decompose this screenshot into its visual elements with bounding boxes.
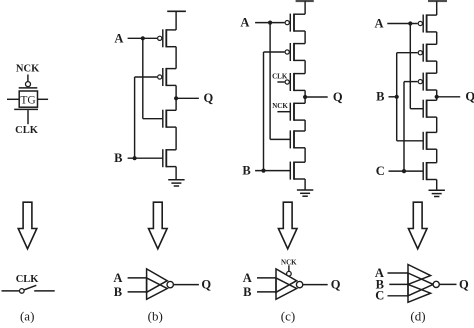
node Q junction (c) [303, 95, 307, 99]
label NCK (TG gate) [16, 63, 40, 74]
VDD rail (c) [296, 0, 314, 2]
nmos M4 (d) gate A [423, 100, 437, 118]
inversion bubble on TG [26, 82, 31, 87]
svg-text:B: B [376, 90, 384, 104]
svg-text:A: A [113, 271, 122, 285]
gate (b) inverter triangle 2 [147, 278, 168, 299]
gate (d) inverter triangle 1 [408, 265, 431, 285]
svg-text:Q: Q [465, 90, 474, 104]
wire M3-Q-M4 (c) [304, 90, 306, 103]
label CLK (c M3) [272, 73, 288, 81]
wire A to M1 gate (b) [128, 37, 157, 39]
gate (d) inverter triangle 3 [408, 284, 431, 302]
gate (b) output bubble [167, 281, 173, 287]
svg-text:C: C [376, 164, 385, 178]
wire M2-Q-M3 (b) [175, 85, 177, 110]
bus B up (c) [263, 52, 265, 171]
wire B into gate (b) [128, 291, 147, 293]
wire B into gate (c) [257, 291, 276, 293]
label NCK (c gate) [281, 258, 297, 266]
label CLK (switch) [16, 274, 40, 285]
nmos M5 (d) gate B [423, 132, 437, 150]
bus A down (b) [142, 38, 144, 118]
wire C into gate (d) [388, 295, 409, 297]
wire B to bus (d) [389, 96, 397, 98]
svg-text:NCK: NCK [16, 63, 40, 74]
wire M1-M2 (c) [304, 31, 306, 44]
wire M4-M5 (d) [436, 117, 438, 132]
label Q (b top) [204, 91, 214, 105]
switch symbol [2, 285, 55, 293]
wire B to M2 gate (d) [397, 52, 418, 54]
arrow (c) [278, 202, 297, 249]
label B (c bottom) [243, 285, 251, 299]
wire rail to M1 (c) [304, 1, 306, 14]
wire B to M4 gate (b) [128, 157, 163, 159]
svg-text:Q: Q [201, 278, 211, 292]
wire M3-M4 (b) [175, 127, 177, 150]
label B (c top) [242, 164, 250, 178]
svg-text:Q: Q [333, 90, 343, 104]
svg-text:B: B [114, 285, 122, 299]
ground (c) [297, 190, 313, 196]
svg-text:B: B [243, 285, 251, 299]
TG right terminal wire [38, 98, 49, 100]
label C (d bottom) [375, 289, 384, 303]
bus A down (d) [409, 24, 411, 109]
VDD rail (d) [428, 0, 447, 2]
label A (b bottom) [113, 271, 122, 285]
wire to Q (d) [437, 96, 461, 98]
TG bottom gate bar [14, 108, 38, 110]
svg-text:B: B [242, 164, 250, 178]
wire C to M6 gate (d) [389, 170, 424, 172]
svg-text:CLK: CLK [272, 73, 288, 81]
node Q junction (d) [435, 95, 439, 99]
label B (d top) [376, 90, 384, 104]
label A (c bottom) [243, 271, 252, 285]
label A (d bottom) [375, 266, 384, 280]
pmos M1 (b) gate A [158, 29, 177, 47]
transmission gate TG box [19, 91, 37, 107]
junction C (d) [402, 169, 406, 173]
nmos M6 (d) gate C [423, 162, 437, 180]
wire NCK to bubble (c gate) [288, 265, 290, 271]
wire A to M1 gate (d) [387, 23, 417, 25]
pmos M3 (c) gate CLK [285, 73, 305, 91]
wire B to M2 gate (b) [135, 76, 157, 78]
svg-text:NCK: NCK [272, 102, 288, 110]
gate (d) inverter triangle 2 [408, 273, 433, 296]
caption (c) [281, 309, 295, 324]
arrow (b) [149, 202, 168, 249]
wire rail to M1 (d) [436, 1, 438, 15]
svg-text:Q: Q [459, 277, 469, 291]
NCK bubble (c gate) [287, 271, 292, 276]
gate (b) inverter triangle 1 [147, 269, 168, 292]
wire A into gate (d) [388, 272, 409, 274]
wire A to M5 gate (c) [270, 138, 290, 140]
TG left terminal wire [7, 98, 19, 100]
wire M3-Q-M4 (d) [436, 90, 438, 100]
node Q junction (b) [174, 96, 178, 100]
junction A (c) [268, 21, 272, 25]
label C (d top) [376, 164, 385, 178]
wire to Q (b) [176, 97, 199, 99]
label CLK (TG gate) [15, 125, 39, 136]
label Q (c bottom) [331, 278, 341, 292]
caption (b) [148, 309, 163, 324]
junction B (b) [133, 156, 137, 160]
wire M1-M2 (b) [175, 47, 177, 69]
wire A to M4 gate (d) [410, 108, 423, 110]
label A (c top) [240, 16, 249, 30]
wire M5-M6 (c) [304, 148, 306, 162]
wire B to M6 gate (c) [255, 170, 290, 172]
gate (c) output bubble [296, 281, 302, 287]
junction B (c) [261, 169, 265, 173]
pmos M1 (c) gate A [285, 14, 305, 32]
wire C to M3 gate (d) [404, 81, 418, 83]
ground (b) [168, 180, 184, 186]
wire M1-M2 (d) [436, 32, 438, 44]
wire B to M2 gate (c) [264, 51, 285, 53]
svg-text:A: A [240, 16, 249, 30]
bus B (d) [396, 53, 398, 141]
wire M5-M6 (d) [436, 149, 438, 163]
VDD rail (b) [167, 10, 186, 12]
wire to Q (c) [305, 96, 328, 98]
wire M4-M5 (c) [304, 120, 306, 131]
nmos M5 (c) gate A [290, 130, 305, 148]
svg-text:Q: Q [331, 278, 341, 292]
gate (c) inverter triangle 2 [276, 278, 297, 299]
caption (d) [410, 309, 425, 324]
pmos M2 (d) gate B [418, 44, 437, 62]
wire gate to Q (c) [303, 284, 328, 286]
svg-text:TG: TG [20, 94, 35, 106]
label A (b top) [114, 31, 123, 45]
label NCK (c M4) [272, 102, 288, 110]
wire M2-M3 (d) [436, 61, 438, 73]
pmos M3 (d) gate C [418, 73, 437, 91]
ground (d) [429, 190, 445, 196]
wire rail to M1 (b) [175, 11, 177, 30]
nmos M4 (b) gate B [163, 149, 176, 167]
label Q (c top) [333, 90, 343, 104]
junction B (d) [395, 95, 399, 99]
svg-text:CLK: CLK [16, 274, 40, 285]
wire A to M3 gate (b) [143, 118, 163, 120]
wire A into gate (b) [128, 277, 147, 279]
label Q (b bottom) [201, 278, 211, 292]
svg-text:(d): (d) [410, 309, 425, 323]
pmos M2 (b) gate B [158, 68, 177, 86]
wire B into gate (d) [389, 283, 408, 285]
bus C up (d) [403, 82, 405, 172]
label B (b bottom) [114, 285, 122, 299]
gate (d) output bubble [433, 281, 439, 287]
wire M4 to ground (b) [175, 167, 177, 180]
wire M6 to ground (c) [304, 179, 306, 190]
svg-text:A: A [114, 31, 123, 45]
caption (a) [20, 309, 34, 324]
label B (b top) [114, 151, 122, 165]
bus A down (c) [269, 23, 271, 140]
svg-text:Q: Q [204, 91, 214, 105]
pmos M2 (c) gate B [285, 43, 305, 61]
label A (d top) [374, 17, 383, 31]
wire CLK stub (c) [277, 81, 284, 83]
wire bottom gate to CLK [27, 110, 29, 124]
wire A into gate (c) [257, 277, 276, 279]
svg-text:NCK: NCK [281, 258, 297, 266]
arrow (a) [18, 202, 37, 249]
label Q (d bottom) [459, 277, 469, 291]
svg-text:C: C [375, 289, 384, 303]
nmos M3 (b) gate A [163, 110, 176, 128]
wire A to M1 gate (c) [255, 22, 284, 24]
wire gate to Q (d) [439, 283, 456, 285]
svg-text:CLK: CLK [15, 125, 39, 136]
svg-text:(b): (b) [148, 309, 163, 323]
gate (c) inverter triangle 1 [276, 269, 297, 292]
wire M2-M3 (c) [304, 60, 306, 73]
TG top gate bar [19, 87, 38, 89]
wire NCK to bubble [27, 75, 29, 82]
wire NCK stub (c) [277, 111, 290, 113]
svg-text:(c): (c) [281, 309, 295, 323]
wire M6 to ground (d) [436, 180, 438, 191]
label B (d bottom) [376, 277, 384, 291]
junction A (b) [141, 36, 145, 40]
svg-text:B: B [114, 151, 122, 165]
svg-text:A: A [243, 271, 252, 285]
nmos M4 (c) gate NCK [290, 103, 305, 121]
arrow (d) [408, 202, 427, 249]
label Q (d top) [465, 90, 474, 104]
nmos M6 (c) gate B [290, 162, 305, 180]
svg-text:(a): (a) [20, 309, 34, 323]
wire gate to Q (b) [173, 284, 199, 286]
pmos M1 (d) gate A [418, 14, 437, 32]
junction A (d) [408, 21, 412, 25]
bus B up (b) [134, 77, 136, 158]
wire B to M5 gate (d) [397, 140, 424, 142]
svg-text:A: A [374, 17, 383, 31]
